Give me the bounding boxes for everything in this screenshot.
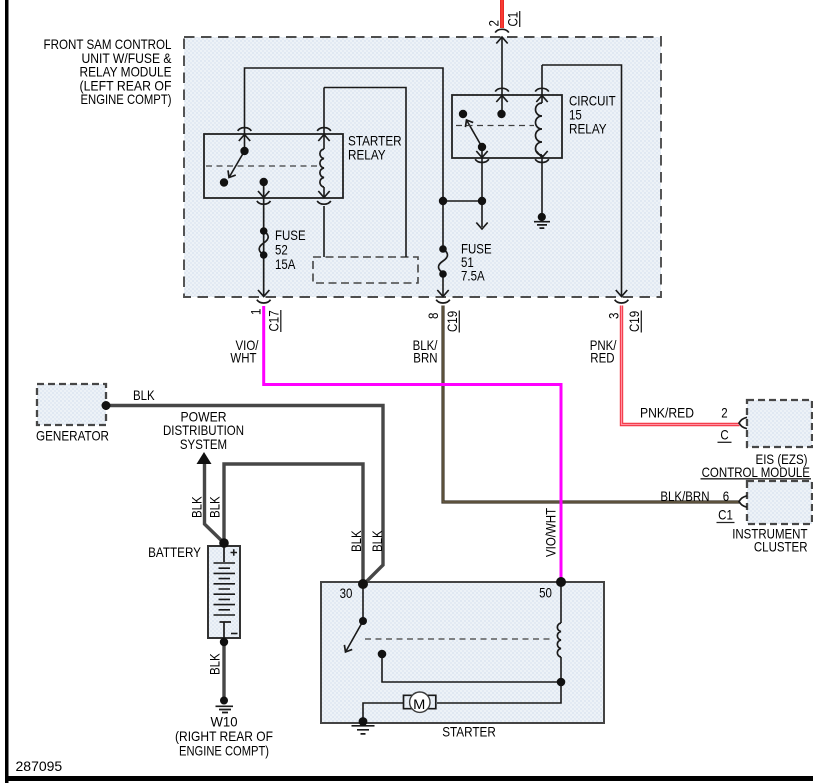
svg-text:RED: RED (590, 350, 614, 366)
svg-text:BLK/BRN: BLK/BRN (660, 488, 709, 504)
svg-text:C19: C19 (444, 311, 460, 332)
svg-text:BLK: BLK (369, 530, 385, 552)
svg-text:2: 2 (721, 405, 728, 421)
svg-text:M: M (413, 696, 425, 712)
svg-text:STARTER: STARTER (442, 724, 496, 740)
svg-text:CLUSTER: CLUSTER (754, 539, 808, 555)
svg-text:1: 1 (248, 308, 264, 315)
svg-text:BRN: BRN (413, 350, 437, 366)
svg-text:WHT: WHT (230, 350, 256, 366)
svg-text:VIO/WHT: VIO/WHT (543, 508, 559, 557)
svg-text:3: 3 (606, 312, 622, 319)
svg-text:RELAY: RELAY (569, 121, 607, 137)
svg-text:BLK: BLK (133, 387, 155, 403)
svg-text:8: 8 (425, 312, 441, 319)
svg-text:287095: 287095 (16, 758, 63, 774)
svg-text:BLK: BLK (207, 496, 223, 518)
svg-text:BLK: BLK (207, 653, 223, 675)
svg-text:50: 50 (539, 585, 552, 601)
svg-text:ENGINE COMPT): ENGINE COMPT) (81, 91, 172, 107)
svg-text:7.5A: 7.5A (461, 268, 485, 284)
svg-text:ENGINE COMPT): ENGINE COMPT) (179, 743, 269, 759)
svg-text:6: 6 (723, 488, 730, 504)
svg-text:CONTROL MODULE: CONTROL MODULE (702, 464, 810, 480)
svg-text:C: C (720, 427, 728, 443)
svg-text:BLK: BLK (348, 530, 364, 552)
svg-text:SYSTEM: SYSTEM (180, 436, 227, 452)
svg-text:PNK/RED: PNK/RED (640, 405, 694, 421)
svg-text:BATTERY: BATTERY (148, 544, 201, 560)
svg-text:C19: C19 (626, 311, 642, 332)
svg-text:2: 2 (486, 20, 502, 27)
svg-text:C1: C1 (718, 507, 733, 523)
svg-text:C1: C1 (505, 12, 521, 27)
svg-text:BLK: BLK (189, 496, 205, 518)
svg-text:GENERATOR: GENERATOR (36, 428, 109, 444)
svg-text:15A: 15A (275, 256, 296, 272)
svg-text:30: 30 (340, 585, 353, 601)
svg-text:RELAY: RELAY (348, 147, 386, 163)
svg-text:C17: C17 (266, 310, 282, 331)
